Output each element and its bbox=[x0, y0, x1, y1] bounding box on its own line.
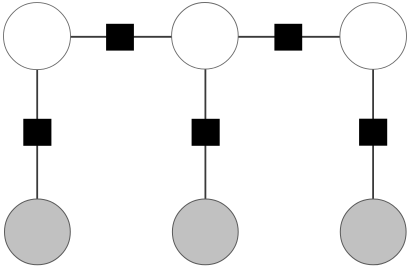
factor c (black square between X1 and Y1) bbox=[23, 119, 51, 146]
node Y1 (gray circle, bottom-left) bbox=[5, 199, 71, 265]
factor b (black square between X2 and X3) bbox=[274, 24, 302, 51]
wire: top circle 2 down to gray circle 2 bbox=[204, 69, 206, 200]
wire: top circle 2 to factor b bbox=[238, 36, 276, 38]
factor d (black square between X2 and Y2) bbox=[192, 119, 220, 146]
node Y2 (gray circle, bottom-middle) bbox=[172, 199, 238, 265]
node X2 (white circle, top-middle) bbox=[172, 3, 239, 70]
factor a (black square between X1 and X2) bbox=[106, 24, 134, 51]
node X1 (white circle, top-left) bbox=[4, 3, 71, 70]
node X3 (white circle, top-right) bbox=[340, 3, 407, 70]
wire: top circle 1 to factor a bbox=[70, 36, 108, 38]
wire: factor a to top circle 2 bbox=[133, 36, 173, 38]
wire: top circle 3 down to gray circle 3 bbox=[372, 69, 374, 199]
wire: factor b to top circle 3 bbox=[301, 36, 341, 38]
factor e (black square between X3 and Y3) bbox=[359, 119, 387, 146]
node Y3 (gray circle, bottom-right) bbox=[340, 199, 406, 265]
wire: top circle 1 down to gray circle 1 bbox=[36, 70, 38, 200]
